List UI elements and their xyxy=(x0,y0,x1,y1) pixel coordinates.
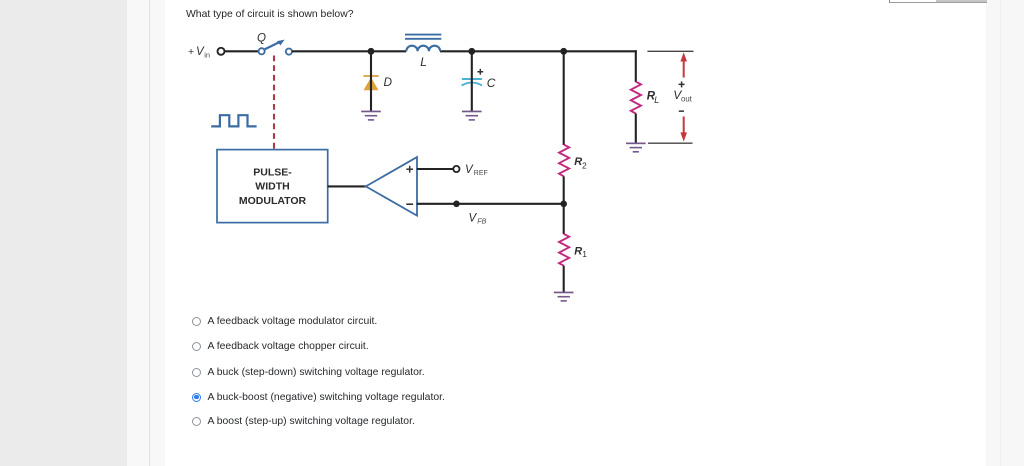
label Vout xyxy=(673,88,692,104)
svg-text:1: 1 xyxy=(582,249,587,259)
node A (diode junction) xyxy=(368,48,375,55)
diode D xyxy=(363,75,378,90)
vertical divider line xyxy=(149,0,150,466)
transistor switch Q xyxy=(259,42,293,55)
op-amp minus input xyxy=(406,203,413,205)
node B (capacitor junction) xyxy=(468,48,475,55)
resistor RL xyxy=(631,82,641,114)
PWM box text xyxy=(239,166,307,207)
right faint line xyxy=(1000,0,1001,466)
svg-text:D: D xyxy=(384,75,393,89)
wire R2 to node D xyxy=(563,176,565,203)
Vout plus xyxy=(679,81,685,87)
node D (feedback divider junction) xyxy=(560,201,567,208)
wire inductor to corner xyxy=(440,50,637,52)
left light strip xyxy=(127,0,165,466)
wire op-amp minus to feedback node xyxy=(417,203,564,205)
svg-text:2: 2 xyxy=(582,161,587,171)
radio option 5 xyxy=(192,417,201,426)
label VFB xyxy=(469,212,487,225)
svg-text:Q: Q xyxy=(257,32,266,44)
svg-text:V: V xyxy=(465,164,474,176)
Vout top reference line xyxy=(647,50,693,52)
ground (R1) xyxy=(554,292,574,302)
wire R1 to ground xyxy=(563,266,565,293)
right light strip xyxy=(986,0,1024,466)
wire RL to ground xyxy=(635,114,637,144)
ground (RL) xyxy=(626,143,646,153)
Vout minus xyxy=(679,110,684,112)
label +Vin xyxy=(188,46,210,60)
red dashed control line xyxy=(273,56,275,150)
Vout up arrow xyxy=(680,52,687,77)
label R2 xyxy=(574,156,587,171)
pulse-width modulator box xyxy=(217,150,328,223)
wire terminal to switch xyxy=(225,50,258,52)
left gray panel xyxy=(0,0,127,466)
svg-text:PULSE-: PULSE- xyxy=(253,166,292,178)
svg-text:+: + xyxy=(188,46,194,58)
resistor R1 xyxy=(559,234,569,266)
Vout down arrow xyxy=(680,117,687,142)
scrollbar remnant top right xyxy=(889,0,987,3)
svg-text:V: V xyxy=(469,212,478,224)
wire node to R1 xyxy=(563,204,565,234)
inductor L xyxy=(405,35,441,52)
label RL xyxy=(647,91,660,106)
op-amp plus input xyxy=(406,166,413,173)
wire switch to inductor xyxy=(292,50,406,52)
svg-text:MODULATOR: MODULATOR xyxy=(239,195,307,207)
pulse waveform icon xyxy=(211,115,256,126)
svg-text:in: in xyxy=(204,50,210,59)
svg-text:L: L xyxy=(420,55,427,69)
capacitor C plus sign xyxy=(477,69,483,75)
label VREF xyxy=(465,164,488,177)
question text xyxy=(186,9,353,20)
radio option 3 xyxy=(192,368,201,377)
svg-text:FB: FB xyxy=(477,217,486,226)
node C (R2 top junction) xyxy=(560,48,567,55)
radio option 4 (selected) xyxy=(192,393,201,402)
wire corner to RL xyxy=(635,50,637,82)
ground (diode) xyxy=(361,111,381,121)
Vout bottom reference line xyxy=(648,142,693,144)
label R1 xyxy=(574,246,587,259)
wire PWM to op-amp xyxy=(328,185,367,187)
switch arrowhead xyxy=(277,40,285,46)
svg-text:out: out xyxy=(681,95,693,104)
radio option 1 xyxy=(192,317,201,326)
resistor R2 xyxy=(559,145,569,177)
ground (capacitor) xyxy=(462,111,482,121)
op-amp U1 xyxy=(366,157,417,216)
svg-text:L: L xyxy=(654,95,659,105)
wire node to R2 xyxy=(563,51,565,145)
junction VFB xyxy=(453,201,460,208)
svg-text:R: R xyxy=(574,246,582,258)
input terminal xyxy=(218,48,225,55)
capacitor C xyxy=(462,79,482,86)
VREF terminal xyxy=(453,166,459,172)
wire op-amp to VREF terminal xyxy=(417,168,454,170)
svg-text:WIDTH: WIDTH xyxy=(255,181,289,193)
svg-text:REF: REF xyxy=(474,170,488,177)
wire node through capacitor to ground xyxy=(471,51,473,111)
wire node through diode to ground xyxy=(370,51,372,111)
svg-text:C: C xyxy=(487,76,496,90)
radio option 2 xyxy=(192,342,201,351)
